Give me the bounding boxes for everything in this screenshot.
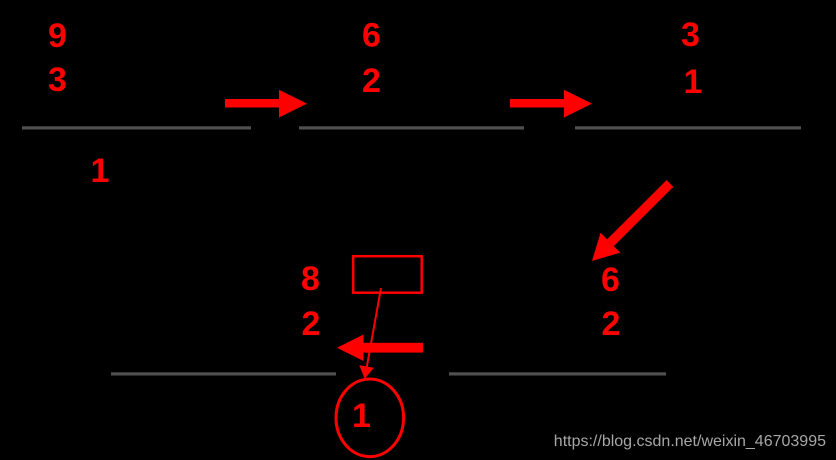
svg-text:https://blog.csdn.net/weixin_4: https://blog.csdn.net/weixin_46703995 bbox=[554, 433, 826, 450]
line: bottom-right bar bbox=[449, 372, 666, 375]
svg-text:2: 2 bbox=[302, 305, 321, 343]
svg-text:2: 2 bbox=[362, 62, 381, 100]
arrow 4 thick left-pointing bbox=[337, 335, 423, 362]
line: top-left divisor bar bbox=[22, 126, 251, 129]
line: top-right divisor bar bbox=[575, 126, 801, 129]
thin arrow from box to circle bbox=[360, 288, 381, 378]
svg-text:6: 6 bbox=[601, 261, 620, 299]
arrow 1 horizontal (left to middle) bbox=[225, 90, 307, 118]
svg-text:2: 2 bbox=[602, 305, 621, 343]
circle (ellipse) around result bbox=[336, 379, 404, 457]
arrow 3 big diagonal (down-left) bbox=[592, 180, 673, 261]
rectangle box bbox=[353, 256, 422, 293]
svg-text:8: 8 bbox=[301, 260, 320, 298]
svg-text:3: 3 bbox=[48, 61, 67, 99]
svg-text:6: 6 bbox=[362, 17, 381, 55]
svg-text:3: 3 bbox=[681, 16, 700, 54]
svg-text:1: 1 bbox=[91, 152, 110, 190]
svg-text:1: 1 bbox=[684, 63, 703, 101]
arrow 2 horizontal (middle to right) bbox=[510, 90, 592, 118]
svg-text:9: 9 bbox=[48, 17, 67, 55]
line: bottom-left bar bbox=[111, 372, 336, 375]
svg-text:1: 1 bbox=[352, 397, 371, 435]
line: top-middle divisor bar bbox=[299, 126, 524, 129]
